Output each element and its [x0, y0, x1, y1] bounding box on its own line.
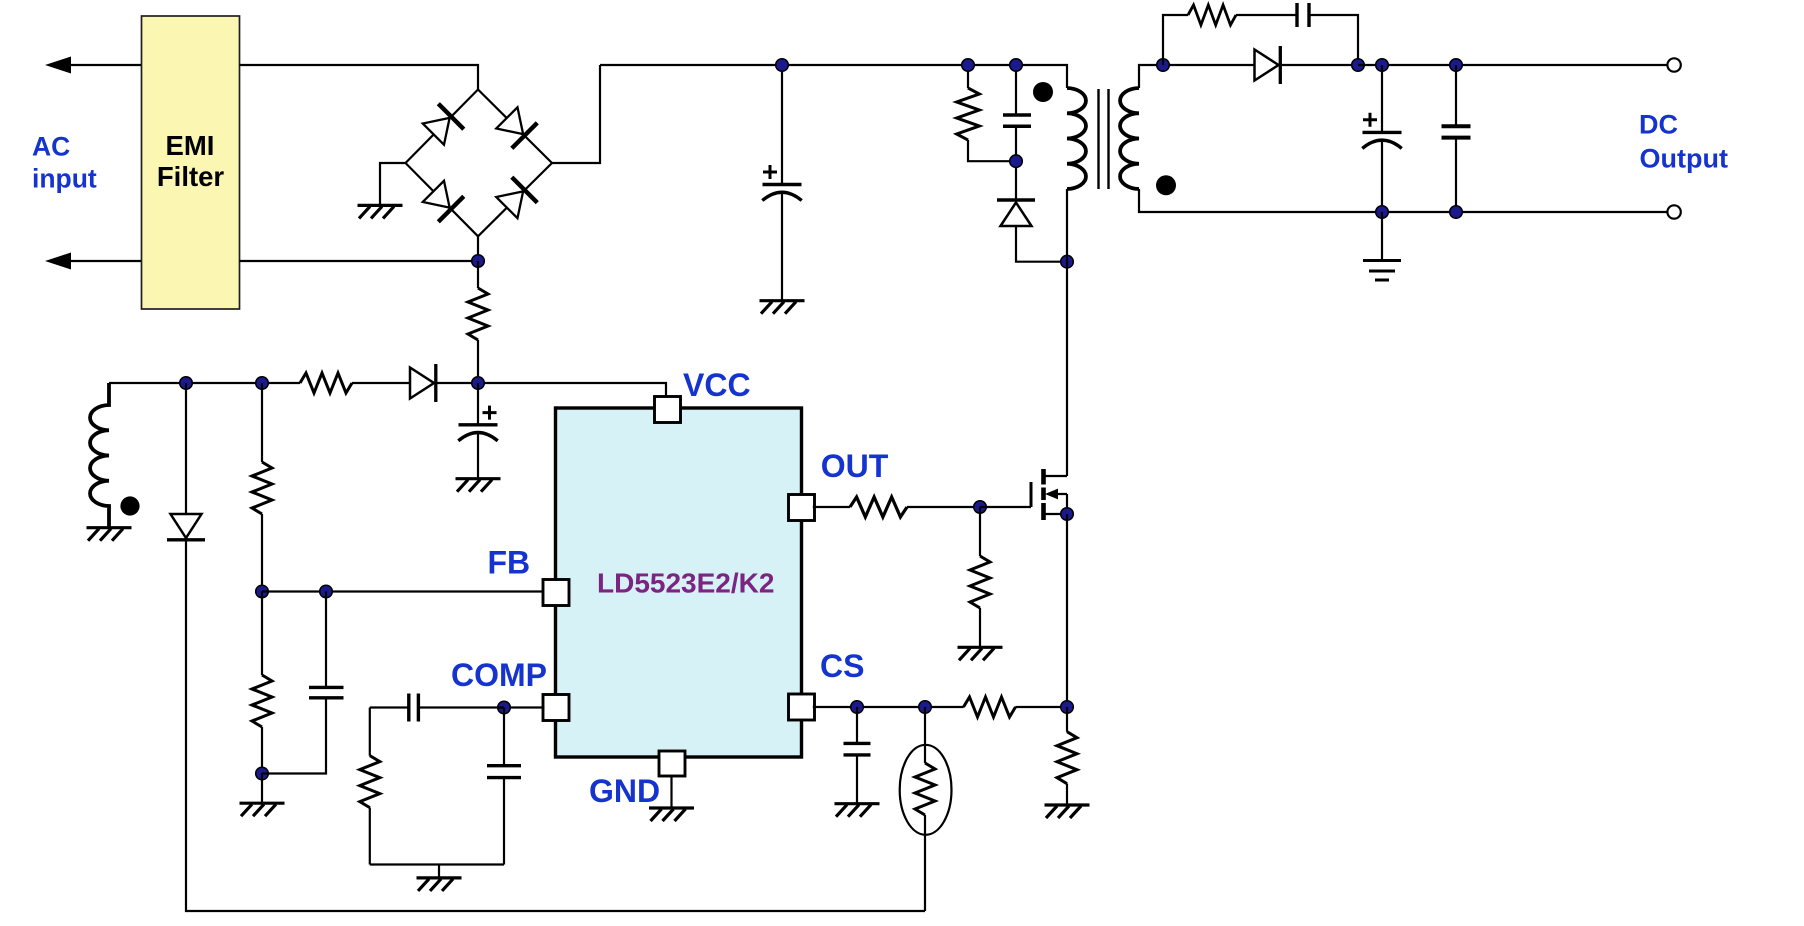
node output cap C5 tap	[1450, 59, 1463, 72]
resistor R6 divider lower	[261, 592, 263, 676]
wire secondary top to rectifier rail	[1139, 65, 1358, 88]
ground below R9	[958, 647, 1003, 660]
pin VCC square	[655, 397, 681, 423]
svg-text:LD5523E2/K2: LD5523E2/K2	[597, 568, 774, 599]
transistor Q1 MOSFET gate bar	[1030, 482, 1033, 507]
ground below R11	[1045, 805, 1090, 818]
svg-text:FB: FB	[488, 545, 531, 581]
wire RT1 bottom to rail	[924, 815, 926, 911]
wire C5 bottom to return rail	[1455, 138, 1457, 212]
wire D5 anode to switch node	[1016, 226, 1067, 262]
wire COMP pin to network	[504, 706, 545, 708]
EMI filter block	[142, 16, 240, 309]
wire primary bottom to switch node	[1066, 189, 1068, 262]
resistor R7 COMP	[369, 708, 371, 756]
pin COMP square	[543, 695, 569, 721]
wire HV bus to transformer primary top	[600, 65, 1067, 88]
wire C6 stem	[477, 383, 479, 425]
node gate junction	[974, 501, 987, 514]
plus sign C4	[1363, 113, 1377, 127]
wire C3 to rail	[1309, 15, 1358, 65]
transistor Q1 drain stub	[1045, 475, 1067, 477]
wire R2 to C3	[1236, 14, 1297, 16]
resistor R4 aux series	[300, 373, 352, 393]
node secondary top junction	[1157, 59, 1170, 72]
wire bridge left vertex to ground	[380, 163, 406, 205]
ground below R6	[261, 774, 263, 804]
wire bridge right vertex to HV bus	[552, 65, 600, 163]
svg-text:Filter: Filter	[157, 161, 225, 192]
thermistor RT1 resistor	[915, 763, 935, 815]
resistor R8 gate	[850, 497, 907, 517]
wire clamp cap stem	[1015, 65, 1017, 115]
bridge diode D2 top-right	[494, 105, 537, 148]
node HV bus C2 tap	[1010, 59, 1023, 72]
pin GND square	[659, 751, 685, 776]
wire R1 bottom to clamp node	[968, 140, 1016, 161]
thermistor RT1 stem top	[924, 707, 926, 763]
terminal DC output plus	[1667, 58, 1680, 71]
wire bridge arm bottom-right	[478, 163, 552, 236]
wire earth stem	[1381, 212, 1383, 261]
transistor Q1 body arrow	[1048, 493, 1067, 495]
resistor R5 divider upper	[261, 383, 263, 462]
pin CS square	[789, 694, 815, 720]
plus sign C6	[483, 406, 497, 420]
svg-text:input: input	[32, 164, 97, 194]
pin OUT square	[789, 495, 815, 521]
dot primary polarity	[1033, 82, 1053, 102]
wire EMI bottom output to bridge bottom node	[240, 260, 479, 262]
diode D7 VCC rectifier	[410, 364, 436, 402]
wire C4 bottom to return rail	[1381, 141, 1383, 212]
dot secondary polarity	[1156, 175, 1176, 195]
svg-text:CS: CS	[820, 648, 864, 684]
svg-text:EMI: EMI	[166, 130, 215, 161]
wire CS pin to sense network	[813, 706, 964, 708]
capacitor C10 CS filter	[856, 707, 858, 743]
op-amp controller U1 LD5523E2/K2 body	[556, 408, 802, 757]
node CS source junction	[1061, 701, 1074, 714]
wire output rail top	[1358, 64, 1667, 66]
diode D5 clamp (pointing up)	[997, 198, 1035, 202]
wire Q1 source down to CS node	[1066, 514, 1068, 707]
node FB cap tap	[320, 585, 333, 598]
transformer T1 core	[1099, 89, 1109, 189]
bridge diode D3 bottom-left	[421, 179, 464, 222]
svg-text:COMP: COMP	[451, 657, 547, 693]
capacitor C1 bulk electrolytic	[762, 185, 801, 201]
node switch node junction	[1061, 255, 1074, 268]
resistor R9 gate pulldown	[979, 507, 981, 556]
wire clamp resistor top	[967, 65, 969, 88]
wire R8 to gate node	[907, 506, 980, 508]
node return rail C5	[1450, 206, 1463, 219]
ground below C10	[835, 804, 880, 817]
earth ground output	[1363, 261, 1401, 281]
arrow AC bottom	[45, 253, 71, 270]
ground below C6	[456, 479, 501, 492]
resistor R10 CS series	[964, 697, 1016, 717]
node bridge bottom junction	[472, 255, 485, 268]
transformer T1 primary winding	[1067, 88, 1086, 189]
node COMP junction	[498, 701, 511, 714]
wire secondary snubber left leg	[1163, 15, 1188, 65]
capacitor C9 COMP parallel	[503, 708, 505, 766]
wire C1 to ground	[781, 193, 783, 301]
ground below aux winding	[87, 528, 132, 541]
wire R10 to source node	[1015, 706, 1067, 708]
capacitor C2 clamp	[1003, 115, 1031, 126]
node bulk cap tap	[776, 59, 789, 72]
arrow AC top	[45, 57, 71, 74]
transistor Q1 source stub	[1045, 513, 1067, 515]
node rectifier output junction	[1352, 59, 1365, 72]
transistor Q1 channel bars	[1041, 469, 1046, 520]
wire bulk cap stem	[781, 65, 783, 185]
dot aux polarity	[120, 496, 139, 515]
diode D8 line-sense (pointing down)	[185, 383, 187, 514]
node HV bus R1 tap	[962, 59, 975, 72]
wire Q1 drain to switch node	[1066, 262, 1068, 476]
node VCC cap junction	[472, 377, 485, 390]
wire C2 bottom to clamp node	[1015, 126, 1017, 200]
node clamp RC junction	[1010, 155, 1023, 168]
node CS filter tap	[851, 701, 864, 714]
svg-text:Output: Output	[1640, 144, 1728, 174]
resistor R11 current sense	[1066, 707, 1068, 732]
wire C6 to ground	[477, 433, 479, 479]
wire bridge arm bottom-left	[406, 163, 479, 236]
ground below C1	[760, 301, 805, 314]
bridge diode D1 top-left	[421, 104, 464, 147]
terminal DC output minus	[1667, 205, 1680, 218]
resistor R2 secondary snubber	[1188, 5, 1236, 25]
resistor R3 startup from bridge bottom	[477, 261, 479, 288]
thermistor RT1 ellipse	[900, 745, 952, 835]
node Q1 source junction	[1061, 508, 1074, 521]
capacitor C8 COMP series	[418, 706, 504, 708]
capacitor C6 VCC electrolytic	[458, 425, 497, 441]
pin FB square	[543, 580, 569, 606]
wire COMP network bottom	[370, 863, 504, 865]
wire AC line bottom with arrow	[52, 260, 142, 262]
wire GND pin to ground	[670, 775, 672, 808]
node aux rail divider tap	[256, 377, 269, 390]
wire FB rail	[262, 590, 545, 592]
svg-text:OUT: OUT	[821, 448, 889, 484]
transformer T1 aux winding	[90, 383, 109, 528]
wire C4 stem	[1381, 65, 1383, 132]
node FB rail left	[256, 585, 269, 598]
plus sign C1	[763, 165, 777, 179]
wire aux rail to VCC pin	[109, 383, 666, 397]
wire bridge bottom vertex down	[477, 236, 479, 261]
node divider bottom junction	[256, 767, 269, 780]
node aux rail D8 tap	[180, 377, 193, 390]
diode D6 output rectifier	[1255, 46, 1281, 84]
wire gate node to MOSFET gate	[980, 506, 1031, 508]
svg-text:GND: GND	[589, 773, 660, 809]
node CS thermistor tap	[919, 701, 932, 714]
capacitor C5 output ceramic	[1442, 126, 1471, 137]
wire secondary bottom return rail	[1139, 189, 1667, 212]
ground below GND pin	[649, 808, 694, 821]
ground COMP network	[438, 865, 440, 878]
capacitor C4 output electrolytic	[1362, 132, 1401, 148]
resistor R1 clamp	[957, 88, 980, 140]
transformer T1 secondary winding	[1120, 88, 1139, 189]
wire OUT pin to gate resistor	[813, 506, 850, 508]
svg-text:DC: DC	[1639, 110, 1678, 140]
wire bridge arm top-right	[478, 90, 552, 164]
wire EMI top output to bridge top vertex	[240, 65, 479, 90]
wire bridge arm top-left	[406, 90, 479, 164]
ground at bridge left	[358, 205, 403, 218]
wire C5 stem	[1455, 65, 1457, 126]
node output cap C4 tap	[1376, 59, 1389, 72]
svg-text:AC: AC	[32, 132, 70, 162]
bridge diode D4 bottom-right	[494, 177, 537, 220]
capacitor C7 FB filter	[325, 592, 327, 688]
wire AC line top with arrow	[52, 64, 142, 66]
wire D8 cathode down to bottom rail	[186, 540, 925, 911]
svg-text:VCC: VCC	[683, 367, 751, 403]
node return rail C4	[1376, 206, 1389, 219]
capacitor C3 secondary snubber	[1297, 3, 1309, 27]
